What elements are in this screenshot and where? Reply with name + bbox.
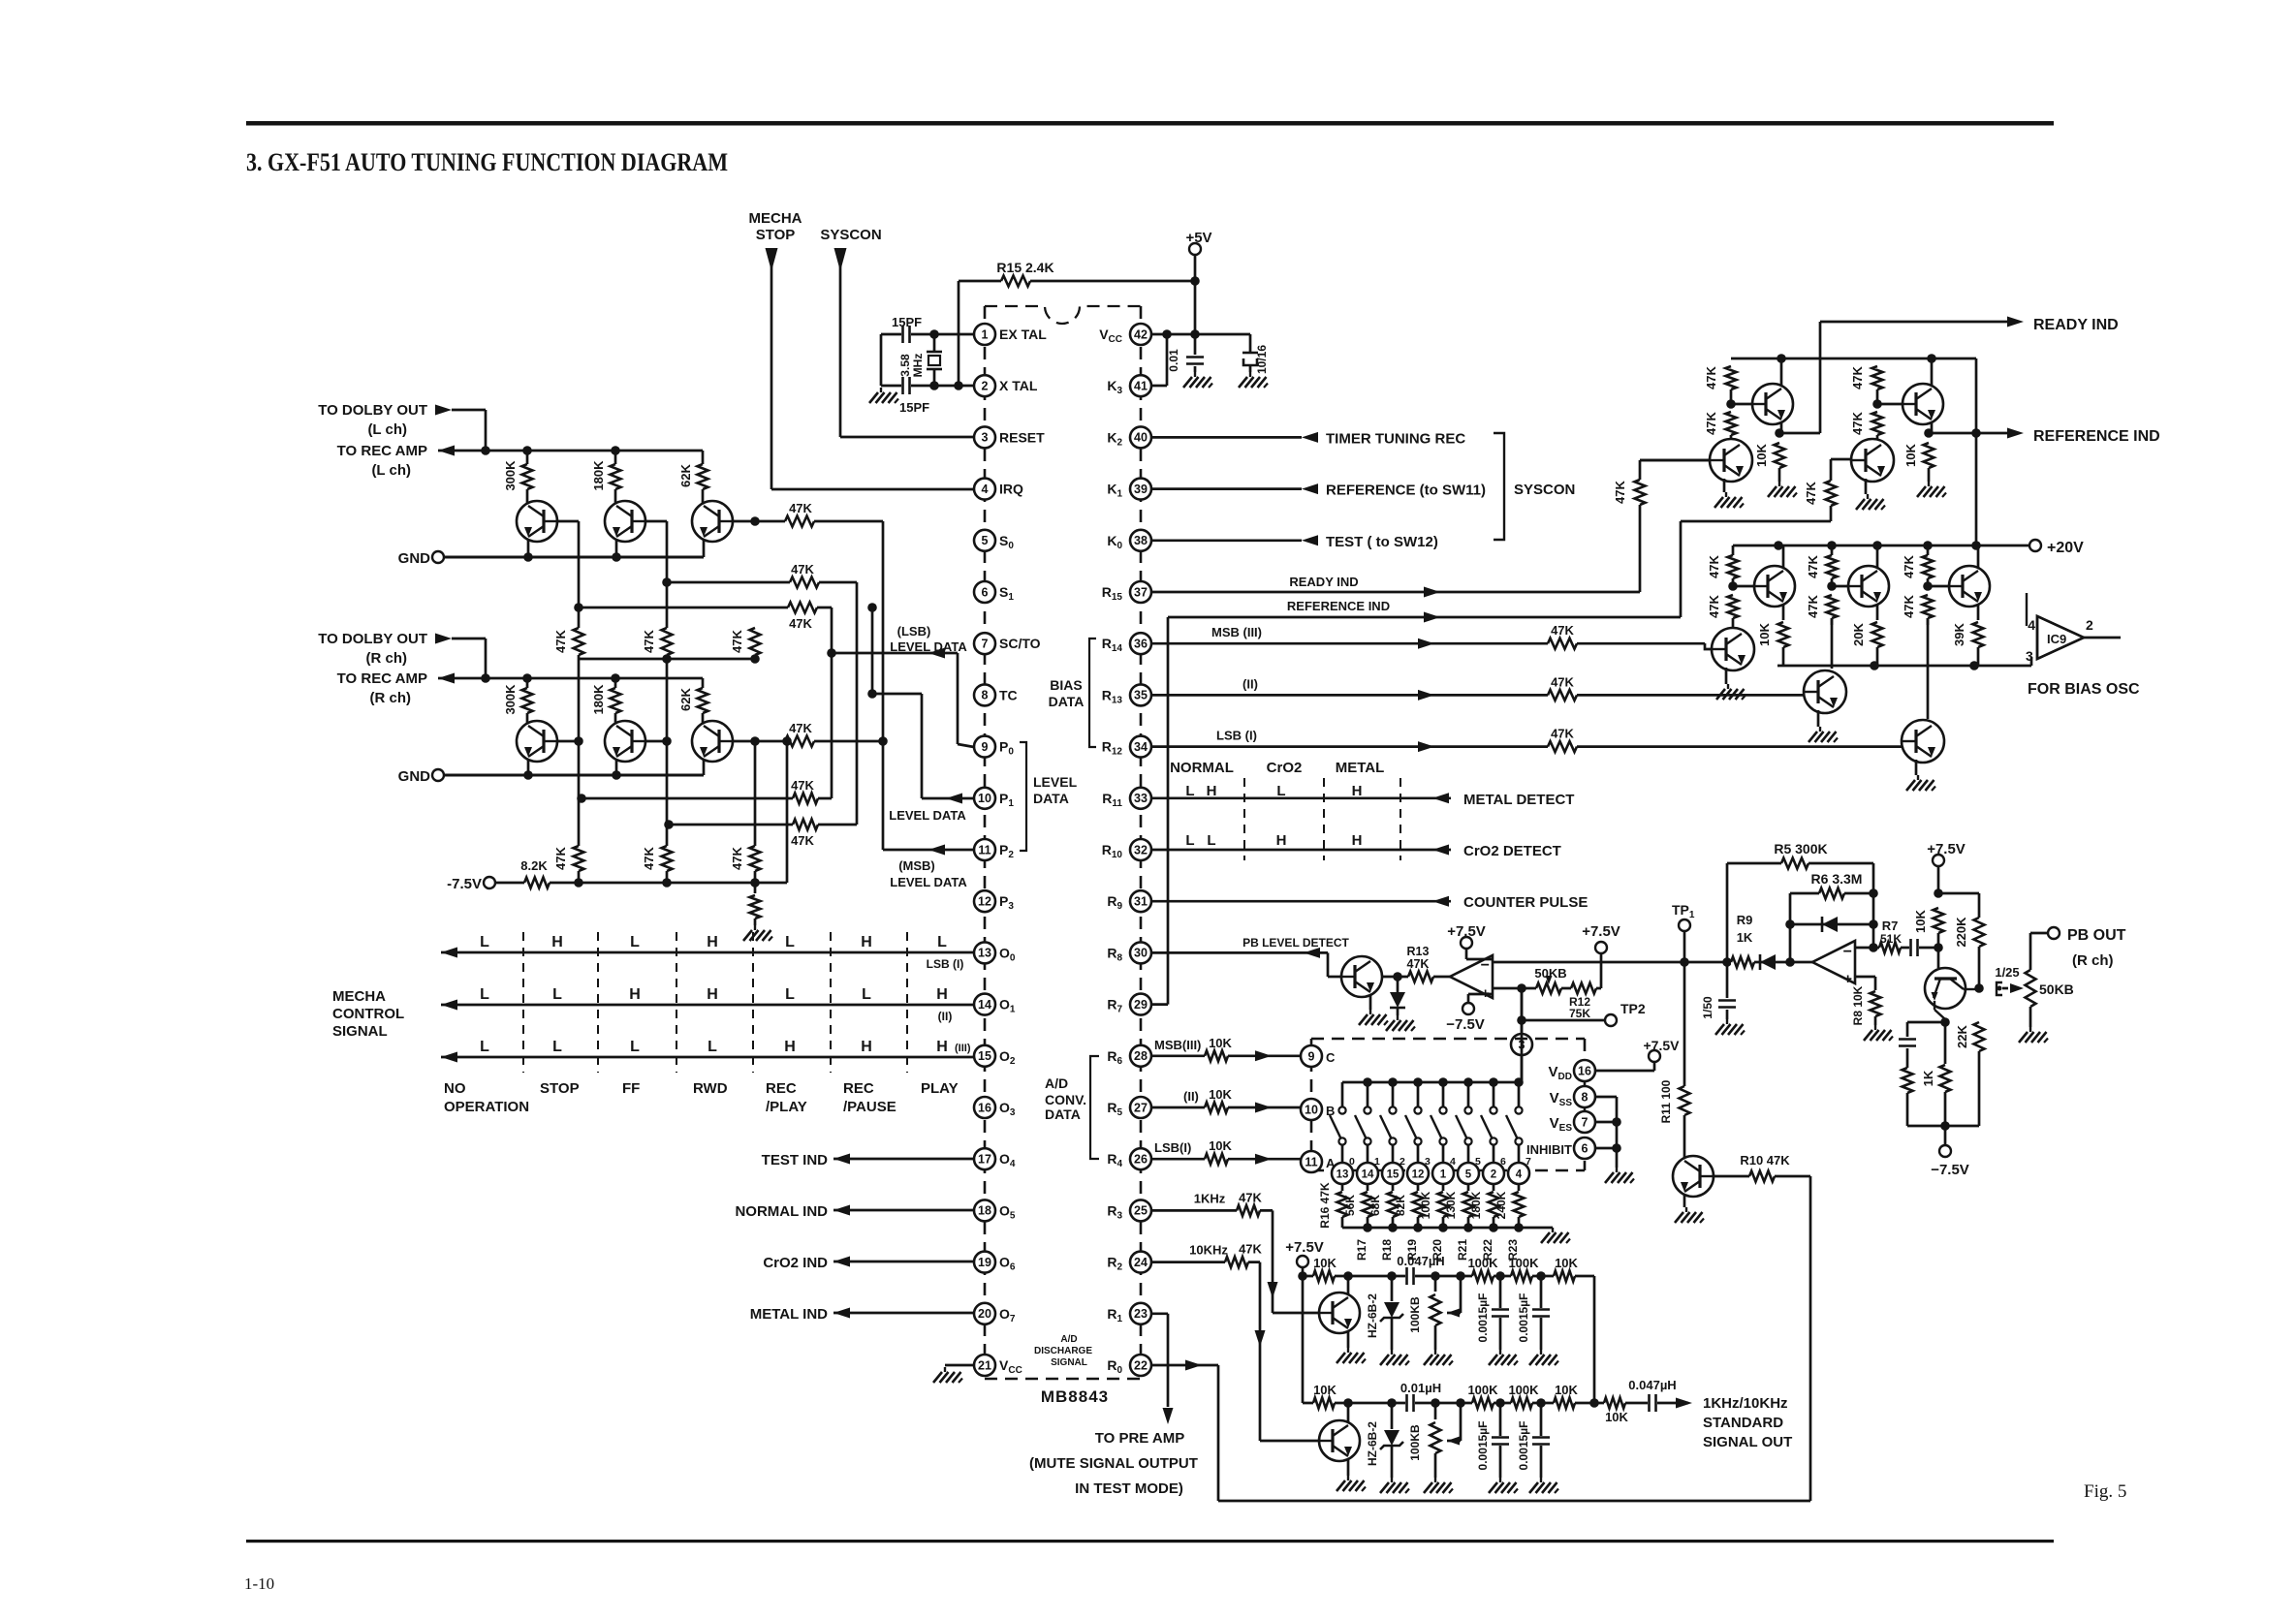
svg-text:LEVEL: LEVEL [1033,774,1078,790]
svg-text:3.58: 3.58 [898,354,912,377]
svg-text:TEST IND: TEST IND [762,1152,829,1168]
svg-text:SYSCON: SYSCON [1514,482,1575,498]
svg-text:8: 8 [982,689,989,702]
svg-text:L: L [480,986,489,1003]
svg-text:10: 10 [1305,1103,1318,1116]
svg-text:12: 12 [1412,1168,1425,1180]
svg-text:41: 41 [1134,380,1148,393]
svg-text:−7.5V: −7.5V [1931,1162,1969,1178]
svg-text:10K: 10K [1209,1138,1232,1153]
svg-text:H: H [629,986,641,1003]
svg-text:1: 1 [1440,1168,1447,1180]
svg-text:1KHz/10KHz: 1KHz/10KHz [1703,1395,1788,1412]
svg-text:39K: 39K [1952,622,1966,645]
svg-text:0.01: 0.01 [1167,349,1180,372]
svg-text:(II): (II) [1242,676,1258,691]
svg-text:READY IND: READY IND [1289,575,1358,589]
svg-text:+7.5V: +7.5V [1927,841,1966,857]
svg-text:15PF: 15PF [899,400,929,415]
svg-text:100K: 100K [1419,1191,1432,1219]
svg-text:SIGNAL OUT: SIGNAL OUT [1703,1434,1792,1450]
svg-text:3: 3 [982,431,989,445]
svg-text:50KB: 50KB [2039,981,2074,997]
svg-text:IC9: IC9 [2047,632,2066,646]
svg-text:REC: REC [843,1080,874,1097]
svg-text:47K: 47K [789,501,812,515]
svg-text:TP2: TP2 [1620,1001,1646,1016]
svg-text:H: H [1276,832,1287,849]
svg-text:STANDARD: STANDARD [1703,1415,1783,1431]
svg-text:25: 25 [1134,1204,1148,1218]
svg-text:DISCHARGE: DISCHARGE [1034,1346,1092,1356]
svg-text:1K: 1K [1921,1070,1935,1086]
svg-text:1/25: 1/25 [1995,965,2019,980]
svg-text:10: 10 [978,792,991,805]
svg-text:GND: GND [398,768,431,785]
svg-text:COUNTER PULSE: COUNTER PULSE [1463,894,1588,911]
svg-text:REFERENCE IND: REFERENCE IND [1287,599,1390,613]
svg-text:LSB (I): LSB (I) [1216,729,1257,743]
svg-text:47K: 47K [1707,594,1721,617]
svg-text:R6 3.3M: R6 3.3M [1811,871,1863,887]
svg-text:CrO2: CrO2 [1267,760,1303,776]
svg-text:MHz: MHz [911,354,925,378]
svg-text:47K: 47K [791,778,814,793]
svg-text:47K: 47K [791,833,814,848]
svg-text:8.2K: 8.2K [520,858,548,873]
svg-text:14: 14 [978,998,991,1012]
svg-text:LEVEL DATA: LEVEL DATA [890,875,967,889]
svg-text:L: L [862,986,871,1003]
svg-text:300K: 300K [503,460,518,491]
svg-text:40: 40 [1134,431,1148,445]
svg-text:47K: 47K [553,846,568,869]
svg-text:0.0015µF: 0.0015µF [1517,1293,1530,1343]
svg-text:TEST ( to SW12): TEST ( to SW12) [1326,534,1438,550]
svg-text:1: 1 [982,327,989,341]
svg-text:SYSCON: SYSCON [820,227,881,243]
svg-text:A/D: A/D [1060,1334,1077,1345]
svg-text:L: L [1185,832,1194,849]
svg-text:R15 2.4K: R15 2.4K [996,260,1054,275]
svg-text:FF: FF [622,1080,640,1097]
svg-text:11: 11 [978,843,991,857]
svg-text:7: 7 [982,638,989,651]
svg-text:6: 6 [1582,1141,1588,1155]
svg-text:R11 100: R11 100 [1659,1079,1673,1123]
svg-text:STOP: STOP [540,1080,580,1097]
svg-text:TO PRE AMP: TO PRE AMP [1095,1430,1185,1447]
svg-text:+7.5V: +7.5V [1644,1038,1681,1053]
svg-text:HZ-6B-2: HZ-6B-2 [1366,1293,1379,1338]
svg-text:47K: 47K [1407,957,1430,971]
svg-text:R17: R17 [1355,1239,1368,1261]
svg-text:5: 5 [1465,1168,1472,1180]
svg-text:C: C [1326,1050,1336,1065]
svg-text:47K: 47K [1850,411,1865,434]
svg-text:20: 20 [978,1307,991,1321]
svg-text:7: 7 [1582,1115,1588,1129]
svg-text:47K: 47K [1551,623,1574,638]
svg-text:+7.5V: +7.5V [1447,923,1486,940]
svg-text:0.01µH: 0.01µH [1400,1381,1441,1395]
svg-text:23: 23 [1134,1307,1148,1321]
svg-text:100K: 100K [1508,1383,1539,1397]
svg-text:R9: R9 [1737,913,1753,927]
svg-text:11: 11 [1305,1155,1317,1168]
svg-text:H: H [551,934,563,950]
svg-text:TO DOLBY OUT: TO DOLBY OUT [318,631,427,647]
svg-text:(R ch): (R ch) [366,650,408,667]
svg-text:PLAY: PLAY [921,1080,959,1097]
svg-text:1KHz: 1KHz [1194,1191,1226,1205]
svg-text:H: H [861,1039,872,1055]
svg-text:17: 17 [978,1153,991,1167]
svg-text:LEVEL DATA: LEVEL DATA [889,808,966,823]
svg-text:1/50: 1/50 [1701,996,1714,1019]
svg-text:34: 34 [1134,740,1148,754]
svg-text:PB OUT: PB OUT [2067,927,2126,944]
svg-text:35: 35 [1134,689,1148,702]
svg-text:100K: 100K [1508,1256,1539,1270]
svg-text:LSB (I): LSB (I) [927,957,964,971]
svg-text:H: H [784,1039,796,1055]
svg-text:10K: 10K [1605,1410,1628,1424]
svg-text:10K: 10K [1754,443,1769,466]
svg-text:47K: 47K [1850,365,1865,389]
svg-text:13: 13 [978,947,991,960]
svg-text:47K: 47K [1704,365,1718,389]
svg-text:DATA: DATA [1033,791,1069,806]
svg-text:X TAL: X TAL [999,378,1038,393]
svg-text:L: L [708,1039,717,1055]
svg-text:4: 4 [2028,617,2035,633]
svg-text:NORMAL IND: NORMAL IND [735,1203,828,1220]
svg-text:IN TEST MODE): IN TEST MODE) [1075,1480,1183,1497]
svg-text:47K: 47K [553,629,568,652]
svg-text:10K: 10K [1555,1256,1578,1270]
svg-text:TIMER TUNING REC: TIMER TUNING REC [1326,430,1465,447]
svg-text:130K: 130K [1444,1191,1458,1219]
svg-text:62K: 62K [678,463,693,486]
svg-text:10K: 10K [1555,1383,1578,1397]
svg-text:1-10: 1-10 [244,1574,274,1593]
svg-text:RESET: RESET [999,429,1045,445]
svg-text:(MSB): (MSB) [898,858,935,873]
svg-text:L: L [785,934,795,950]
svg-text:42: 42 [1134,327,1148,341]
svg-text:20K: 20K [1851,622,1866,645]
svg-text:33: 33 [1134,792,1148,805]
svg-text:24: 24 [1134,1256,1148,1269]
svg-text:METAL IND: METAL IND [750,1306,828,1323]
svg-text:47K: 47K [642,846,656,869]
svg-text:10K: 10K [1913,909,1928,932]
svg-text:R16 47K: R16 47K [1318,1182,1332,1229]
svg-text:OPERATION: OPERATION [444,1099,529,1115]
svg-text:0.0015µF: 0.0015µF [1476,1421,1490,1471]
svg-text:CONV.: CONV. [1045,1092,1086,1107]
svg-text:15: 15 [978,1049,991,1063]
svg-text:14: 14 [1362,1168,1374,1180]
svg-text:15: 15 [1387,1168,1400,1180]
svg-text:47K: 47K [1804,481,1818,504]
svg-text:L: L [552,1039,562,1055]
svg-text:R5 300K: R5 300K [1774,841,1827,857]
svg-text:22K: 22K [1955,1024,1969,1047]
svg-text:(MUTE SIGNAL OUTPUT: (MUTE SIGNAL OUTPUT [1029,1455,1198,1472]
svg-text:CONTROL: CONTROL [332,1006,404,1022]
svg-text:MB8843: MB8843 [1041,1387,1109,1406]
svg-text:H: H [861,934,872,950]
svg-text:NO: NO [444,1080,466,1097]
svg-text:L: L [480,1039,489,1055]
svg-text:3: 3 [2026,648,2033,664]
svg-text:METAL: METAL [1336,760,1385,776]
svg-text:300K: 300K [503,684,518,715]
svg-text:47K: 47K [1551,727,1574,741]
svg-text:0.047µH: 0.047µH [1397,1254,1444,1268]
svg-text:10K: 10K [1757,622,1772,645]
svg-text:1K: 1K [1737,930,1753,945]
svg-text:19: 19 [978,1256,991,1269]
svg-text:28: 28 [1134,1049,1148,1063]
svg-text:29: 29 [1134,998,1148,1012]
svg-text:A/D: A/D [1045,1075,1068,1091]
svg-text:REFERENCE IND: REFERENCE IND [2033,428,2160,445]
svg-text:47K: 47K [730,629,744,652]
svg-text:180K: 180K [591,460,606,491]
svg-text:180K: 180K [591,684,606,715]
svg-text:−7.5V: −7.5V [1446,1016,1485,1033]
svg-text:37: 37 [1134,585,1148,599]
svg-text:METAL DETECT: METAL DETECT [1463,792,1574,808]
svg-text:68K: 68K [1368,1195,1382,1216]
svg-text:DATA: DATA [1049,694,1085,709]
svg-text:10K: 10K [1209,1036,1232,1050]
svg-text:10K: 10K [1209,1087,1232,1102]
svg-text:MECHA: MECHA [332,988,386,1005]
svg-text:H: H [1352,832,1363,849]
svg-text:56K: 56K [1343,1195,1357,1216]
svg-text:36: 36 [1134,638,1148,651]
svg-text:TO REC AMP: TO REC AMP [337,670,427,687]
svg-text:READY IND: READY IND [2033,317,2119,333]
svg-text:RWD: RWD [693,1080,728,1097]
svg-text:MECHA: MECHA [749,210,802,227]
svg-text:L: L [785,986,795,1003]
svg-text:SIGNAL: SIGNAL [332,1023,388,1040]
svg-text:4: 4 [982,483,989,496]
svg-text:EX TAL: EX TAL [999,327,1047,342]
svg-text:REFERENCE (to SW11): REFERENCE (to SW11) [1326,483,1486,499]
svg-text:R8 10K: R8 10K [1851,985,1865,1025]
svg-text:L: L [480,934,489,950]
svg-text:9: 9 [982,740,989,754]
svg-text:-7.5V: -7.5V [447,876,482,892]
svg-text:16: 16 [1578,1064,1591,1077]
svg-text:47K: 47K [730,846,744,869]
svg-text:+5V: +5V [1185,230,1211,246]
svg-text:TO DOLBY OUT: TO DOLBY OUT [318,402,427,419]
svg-text:INHIBIT: INHIBIT [1526,1142,1572,1157]
svg-text:82K: 82K [1394,1195,1407,1216]
svg-text:H: H [707,986,718,1003]
svg-text:0.0015µF: 0.0015µF [1517,1421,1530,1471]
svg-text:H: H [936,1039,948,1055]
svg-text:REC: REC [766,1080,797,1097]
svg-text:L: L [1207,832,1215,849]
svg-text:(II): (II) [938,1010,953,1023]
svg-text:+20V: +20V [2047,540,2084,556]
svg-text:BIAS: BIAS [1050,677,1082,693]
svg-text:R18: R18 [1380,1239,1394,1261]
svg-text:21: 21 [978,1358,991,1372]
svg-text:10K: 10K [1313,1383,1337,1397]
svg-text:10K: 10K [1903,443,1918,466]
svg-text:31: 31 [1134,895,1148,909]
svg-text:4: 4 [1516,1168,1523,1180]
svg-text:30: 30 [1134,947,1148,960]
svg-text:18: 18 [978,1204,991,1218]
svg-text:39: 39 [1134,483,1148,496]
svg-text:2: 2 [2086,617,2093,633]
svg-text:R13: R13 [1407,945,1430,958]
svg-text:180K: 180K [1469,1191,1483,1219]
svg-text:38: 38 [1134,534,1148,547]
svg-text:100K: 100K [1467,1256,1498,1270]
svg-text:3. GX-F51 AUTO TUNING FUNCTION: 3. GX-F51 AUTO TUNING FUNCTION DIAGRAM [246,148,728,176]
svg-text:47K: 47K [1806,594,1820,617]
svg-text:9: 9 [1308,1049,1315,1063]
svg-text:(II): (II) [1183,1089,1199,1104]
svg-text:0.047µH: 0.047µH [1628,1378,1676,1392]
svg-text:100K: 100K [1467,1383,1498,1397]
svg-text:100KB: 100KB [1408,1296,1422,1333]
svg-text:(III): (III) [955,1043,971,1054]
svg-text:47K: 47K [789,721,812,735]
svg-text:10/16: 10/16 [1255,345,1269,374]
svg-text:/PLAY: /PLAY [766,1099,807,1115]
svg-text:10K: 10K [1313,1256,1337,1270]
svg-text:100KB: 100KB [1408,1424,1422,1461]
svg-text:NORMAL: NORMAL [1170,760,1234,776]
svg-text:H: H [707,934,718,950]
svg-text:2: 2 [982,380,989,393]
svg-text:50KB: 50KB [1534,966,1566,981]
svg-text:SC/TO: SC/TO [999,636,1041,651]
svg-text:HZ-6B-2: HZ-6B-2 [1366,1421,1379,1466]
svg-text:PB LEVEL DETECT: PB LEVEL DETECT [1242,936,1349,950]
svg-text:MSB(III): MSB(III) [1154,1038,1201,1052]
svg-text:5: 5 [982,534,989,547]
svg-text:STOP: STOP [756,227,796,243]
svg-text:47K: 47K [1551,674,1574,689]
svg-text:LEVEL DATA: LEVEL DATA [890,639,967,654]
svg-text:47K: 47K [642,629,656,652]
svg-text:−: − [1843,944,1852,960]
svg-text:+7.5V: +7.5V [1582,923,1620,940]
svg-text:FOR BIAS OSC: FOR BIAS OSC [2028,681,2140,698]
svg-text:LSB(I): LSB(I) [1154,1140,1191,1155]
svg-text:(R ch): (R ch) [2072,952,2114,969]
svg-text:22: 22 [1134,1358,1148,1372]
svg-text:26: 26 [1134,1153,1148,1167]
svg-text:27: 27 [1134,1101,1148,1114]
svg-text:2: 2 [1491,1168,1496,1180]
svg-text:H: H [936,986,948,1003]
svg-text:R7: R7 [1882,919,1899,933]
svg-text:47K: 47K [789,616,812,631]
svg-text:(L ch): (L ch) [367,421,407,438]
svg-text:+7.5V: +7.5V [1285,1239,1324,1256]
svg-text:47K: 47K [791,562,814,576]
svg-text:32: 32 [1134,843,1148,857]
svg-text:12: 12 [978,895,991,909]
svg-text:SIGNAL: SIGNAL [1051,1357,1087,1368]
svg-text:(L ch): (L ch) [371,462,411,479]
svg-text:75K: 75K [1569,1007,1590,1020]
svg-text:47K: 47K [1239,1190,1262,1204]
svg-text:(R ch): (R ch) [370,690,412,706]
svg-text:CrO2 DETECT: CrO2 DETECT [1463,843,1561,859]
svg-text:DATA: DATA [1045,1106,1081,1122]
svg-text:MSB (III): MSB (III) [1211,625,1262,639]
svg-text:IRQ: IRQ [999,482,1023,497]
svg-text:240K: 240K [1494,1191,1508,1219]
svg-text:47K: 47K [1613,480,1627,503]
svg-text:+: + [1843,971,1852,987]
svg-text:R10 47K: R10 47K [1740,1153,1790,1168]
svg-text:Fig. 5: Fig. 5 [2084,1481,2126,1502]
svg-text:47K: 47K [1902,554,1916,577]
svg-text:CrO2 IND: CrO2 IND [763,1255,828,1271]
svg-text:TC: TC [999,687,1018,702]
svg-text:(LSB): (LSB) [897,624,931,639]
svg-text:47K: 47K [1707,554,1721,577]
svg-text:6: 6 [982,585,989,599]
svg-text:220K: 220K [1954,917,1968,948]
svg-text:62K: 62K [678,687,693,710]
svg-text:L: L [630,934,640,950]
svg-text:51K: 51K [1880,932,1902,946]
svg-text:47K: 47K [1704,411,1718,434]
svg-text:10KHz: 10KHz [1189,1243,1228,1258]
svg-text:GND: GND [398,550,431,567]
svg-text:13: 13 [1337,1168,1349,1180]
svg-text:15PF: 15PF [892,315,922,329]
svg-text:16: 16 [978,1101,991,1114]
svg-text:47K: 47K [1806,554,1820,577]
svg-text:8: 8 [1582,1090,1588,1104]
svg-text:TO REC AMP: TO REC AMP [337,443,427,459]
svg-text:/PAUSE: /PAUSE [843,1099,896,1115]
svg-text:L: L [630,1039,640,1055]
svg-text:L: L [937,934,947,950]
svg-text:L: L [552,986,562,1003]
svg-text:0.0015µF: 0.0015µF [1476,1293,1490,1343]
svg-text:47K: 47K [1902,594,1916,617]
